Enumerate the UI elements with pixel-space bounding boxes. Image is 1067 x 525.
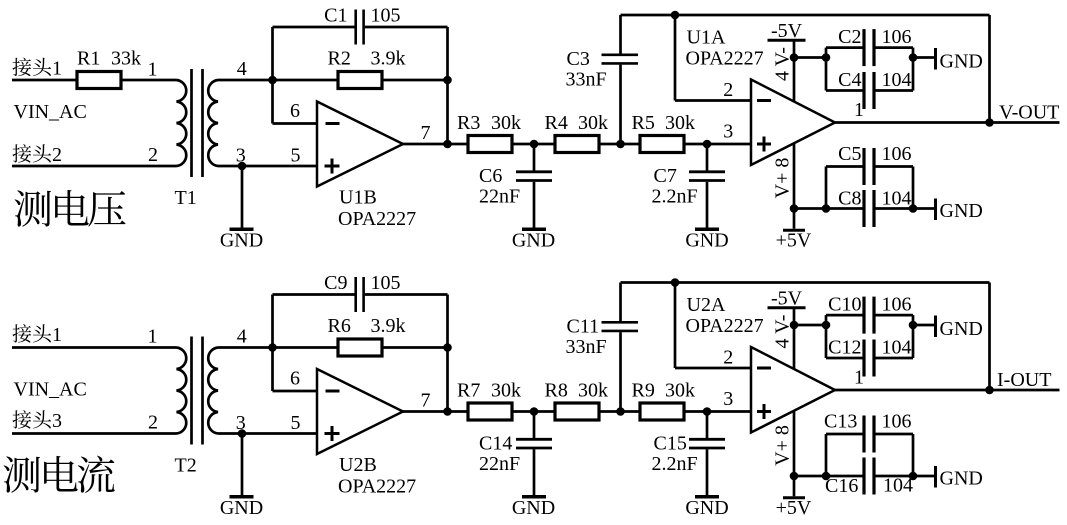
ground under transformer: [220, 497, 263, 519]
transformer T1 core: [192, 69, 203, 177]
svg-text:GND: GND: [940, 200, 983, 222]
wire -5V node to bypass caps: [794, 324, 826, 327]
label 接头1 (connector 1): [13, 58, 63, 80]
power +5V flag: [776, 497, 812, 519]
svg-text:1: 1: [52, 58, 62, 80]
label 接头3 (connector 2): [13, 410, 63, 432]
label R8 30k: [545, 380, 609, 402]
svg-text:30k: 30k: [578, 112, 608, 134]
wire -5V to op-amp V- pin: [793, 42, 796, 103]
svg-text:OPA2227: OPA2227: [338, 476, 416, 498]
svg-text:22nF: 22nF: [479, 186, 520, 208]
svg-text:30k: 30k: [665, 112, 695, 134]
svg-text:C4: C4: [838, 69, 861, 91]
svg-text:V-OUT: V-OUT: [999, 102, 1059, 124]
svg-text:+5V: +5V: [776, 497, 812, 519]
svg-text:30k: 30k: [665, 380, 695, 402]
wire -5V node to bypass caps: [794, 56, 826, 59]
svg-text:R5: R5: [632, 112, 655, 134]
svg-text:U2A: U2A: [687, 294, 726, 316]
label C5 106: [838, 143, 911, 165]
svg-text:6: 6: [290, 368, 300, 390]
svg-text:2.2nF: 2.2nF: [652, 186, 698, 208]
svg-text:1: 1: [148, 59, 158, 81]
wire pin2 branch: [675, 15, 751, 101]
node +5V junction: [790, 472, 799, 481]
wire bypass to ground flag: [913, 324, 934, 327]
capacitor C3 33nF: [602, 15, 639, 144]
svg-text:104: 104: [883, 475, 913, 497]
power +5V flag: [776, 230, 812, 252]
svg-text:C9: C9: [324, 272, 347, 294]
label R6 3.9k: [328, 315, 406, 337]
svg-text:2: 2: [723, 347, 733, 369]
svg-text:1: 1: [148, 326, 158, 348]
caption 测电压: [15, 190, 126, 227]
wire T pin3 to op-amp pin5: [218, 165, 317, 168]
label C10 106: [828, 294, 911, 316]
svg-text:R6: R6: [328, 315, 351, 337]
ground under C6: [512, 229, 555, 251]
wire pin2 branch: [675, 283, 751, 369]
wire +5V node to bypass caps: [794, 475, 863, 478]
wire node A to feedback row (vertical): [271, 27, 274, 124]
svg-text:GND: GND: [685, 497, 728, 519]
svg-text:3: 3: [723, 388, 733, 410]
output feedback junction: [985, 386, 994, 395]
wire R8 to R9: [599, 410, 640, 413]
transformer T1 primary winding: [177, 80, 187, 166]
resistor R7 30k: [468, 403, 512, 420]
svg-text:I-OUT: I-OUT: [997, 369, 1051, 391]
capacitor C10 106 (bypass): [826, 297, 913, 358]
label R3 30k: [457, 112, 521, 134]
op-amp U1A: [751, 80, 835, 166]
wire 接头 lower to T pin2: [12, 432, 177, 435]
node C14 junction: [530, 407, 539, 416]
ground flag right (upper): [936, 48, 983, 73]
svg-text:V+ 8: V+ 8: [772, 425, 794, 466]
label R4 30k: [545, 112, 609, 134]
svg-text:OPA2227: OPA2227: [686, 315, 764, 337]
svg-text:R7: R7: [457, 380, 480, 402]
transformer T2 secondary winding: [208, 348, 218, 434]
resistor R8 30k: [555, 403, 599, 420]
label C8 104: [838, 188, 911, 210]
svg-text:3: 3: [723, 121, 733, 143]
node A junction: [268, 76, 277, 85]
svg-text:GND: GND: [220, 497, 263, 519]
svg-text:7: 7: [421, 122, 431, 144]
capacitor C4 104 (bypass): [826, 48, 913, 109]
ground flag right (lower): [936, 466, 983, 490]
svg-text:R1: R1: [77, 48, 100, 70]
svg-text:C11: C11: [567, 315, 600, 337]
op-amp U2A plus sign: [757, 404, 771, 419]
wire node3 to ground: [241, 166, 244, 228]
capacitor C2 106 (bypass): [826, 29, 913, 90]
node +5V junction: [790, 204, 799, 213]
wire T pin3 to op-amp pin5: [218, 432, 317, 435]
svg-text:106: 106: [882, 294, 912, 316]
svg-text:C6: C6: [479, 165, 502, 187]
node 3 junction: [238, 162, 247, 171]
capacitor C12 104 (bypass): [826, 315, 913, 376]
svg-text:C14: C14: [479, 433, 512, 455]
op-amp U2A: [751, 347, 835, 433]
capacitor C7 2.2nF: [689, 144, 725, 228]
ground under C14: [512, 497, 555, 519]
svg-text:33nF: 33nF: [566, 336, 607, 358]
wire op-amp output pin7: [403, 143, 468, 146]
node 3 junction: [238, 429, 247, 438]
wire 接头1 to R1: [12, 79, 77, 82]
label R5 30k: [632, 112, 696, 134]
wire R4 to R5: [599, 143, 640, 146]
label C7 2.2nF: [652, 165, 698, 208]
capacitor C1 105 (feedback): [273, 10, 448, 45]
wire T pin4 to node A: [218, 346, 273, 349]
top feedback rail: [621, 14, 990, 17]
label C12 104: [828, 337, 911, 359]
svg-text:4 V-: 4 V-: [772, 47, 794, 81]
op-amp U2B plus sign: [325, 426, 340, 441]
svg-text:GND: GND: [940, 468, 983, 490]
wire feedback vertical far right: [988, 283, 991, 391]
label U2B OPA2227: [338, 454, 416, 498]
op-amp U1B plus sign: [325, 159, 340, 174]
svg-text:2: 2: [52, 144, 62, 166]
capacitor C16 104 (bypass): [864, 434, 913, 495]
svg-text:33k: 33k: [111, 48, 141, 70]
svg-text:104: 104: [882, 188, 912, 210]
svg-text:C1: C1: [324, 5, 347, 27]
label C4 104: [838, 69, 911, 91]
wire node A to R6: [273, 346, 339, 349]
capacitor C6 22nF: [516, 144, 552, 228]
wire feedback vertical right: [446, 295, 449, 412]
svg-text:T2: T2: [175, 455, 197, 477]
svg-text:4 V-: 4 V-: [772, 315, 794, 349]
svg-text:T1: T1: [175, 187, 197, 209]
wire feedback vertical far right: [988, 15, 991, 123]
svg-text:GND: GND: [940, 318, 983, 340]
junction left bypass bracket: [822, 53, 831, 62]
label U2A OPA2227: [686, 294, 764, 337]
junction right bypass bracket lower: [909, 472, 918, 481]
svg-text:104: 104: [882, 69, 912, 91]
resistor R1: [77, 72, 121, 89]
svg-text:+5V: +5V: [776, 230, 812, 252]
svg-text:3.9k: 3.9k: [371, 315, 406, 337]
resistor R4 30k: [555, 136, 599, 153]
svg-text:C7: C7: [654, 165, 677, 187]
label R7 30k: [457, 380, 521, 402]
capacitor C8 104 (bypass): [864, 167, 913, 228]
node -5V junction: [790, 321, 799, 330]
svg-text:106: 106: [882, 411, 912, 433]
op-amp U1B: [317, 102, 403, 187]
wire R5 to op-amp pin3: [686, 143, 752, 146]
wire pin6 row: [273, 390, 318, 393]
wire 接头 lower to T pin2: [12, 165, 177, 168]
svg-text:2.2nF: 2.2nF: [652, 453, 698, 475]
ground flag right (lower): [936, 199, 983, 223]
node C11 junction: [616, 407, 625, 416]
svg-text:104: 104: [882, 337, 912, 359]
label C11 33nF: [566, 315, 607, 358]
ground under C15: [685, 497, 728, 519]
svg-text:VIN_AC: VIN_AC: [14, 379, 87, 401]
top feedback rail: [621, 281, 990, 284]
label C3 33nF: [566, 48, 607, 91]
svg-text:7: 7: [421, 390, 431, 412]
label C16 104: [825, 475, 913, 498]
caption 测电流: [4, 456, 115, 493]
label C1 105: [324, 5, 400, 27]
op-amp U1A plus sign: [757, 137, 771, 152]
svg-text:C3: C3: [567, 48, 590, 70]
svg-text:3: 3: [52, 410, 62, 432]
capacitor C13 106 (bypass): [826, 416, 913, 477]
resistor R9 30k: [640, 403, 684, 420]
svg-text:OPA2227: OPA2227: [686, 48, 764, 70]
label 接头1 (connector 1): [13, 324, 63, 346]
junction right bypass bracket lower: [909, 204, 918, 213]
svg-text:GND: GND: [512, 497, 555, 519]
transformer T2 core: [192, 337, 203, 445]
node C7 junction: [703, 140, 712, 149]
svg-text:5: 5: [291, 412, 301, 434]
svg-text:C12: C12: [828, 337, 861, 359]
ground flag right (upper): [936, 316, 983, 341]
wire 接头1 to T2 pin1: [12, 346, 177, 349]
op-amp U2B: [317, 369, 403, 454]
svg-text:2: 2: [148, 144, 158, 166]
capacitor C15 2.2nF: [689, 412, 725, 496]
junction left bypass bracket lower: [822, 472, 831, 481]
label C6 22nF: [479, 165, 520, 208]
label C9 105: [324, 272, 400, 294]
wire node A to feedback row (vertical): [271, 295, 274, 392]
wire lower bypass to ground flag: [913, 475, 934, 478]
svg-text:VIN_AC: VIN_AC: [14, 101, 87, 123]
right feedback node junction: [443, 76, 452, 85]
wire op-amp V+ pin to +5V: [793, 411, 796, 497]
svg-text:105: 105: [371, 5, 401, 27]
label C15 2.2nF: [652, 433, 698, 476]
svg-text:R3: R3: [457, 112, 480, 134]
resistor R3 30k: [468, 136, 512, 153]
wire lower bypass to ground flag: [913, 207, 934, 210]
svg-text:105: 105: [371, 272, 401, 294]
svg-text:33nF: 33nF: [566, 69, 607, 91]
svg-text:2: 2: [723, 79, 733, 101]
wire -5V to op-amp V- pin: [793, 309, 796, 370]
svg-text:OPA2227: OPA2227: [338, 208, 416, 230]
transformer T2 primary winding: [177, 348, 187, 434]
svg-text:22nF: 22nF: [479, 453, 520, 475]
junction left bypass bracket lower: [822, 204, 831, 213]
svg-text:4: 4: [237, 326, 247, 348]
power -5V flag: [768, 288, 806, 310]
svg-text:C10: C10: [828, 294, 861, 316]
op-amp U1B minus sign: [326, 122, 340, 125]
svg-text:4: 4: [237, 58, 247, 80]
op-amp U2A minus sign: [757, 367, 771, 370]
power -5V flag: [768, 20, 806, 42]
junction right bypass bracket: [909, 321, 918, 330]
junction left bypass bracket: [822, 321, 831, 330]
resistor R5 30k: [640, 136, 684, 153]
pin2 branch junction: [671, 11, 680, 20]
transformer T1 secondary winding: [208, 80, 218, 166]
svg-text:1: 1: [52, 324, 62, 346]
svg-text:C13: C13: [824, 411, 857, 433]
label U1A OPA2227: [686, 27, 764, 70]
label 接头2 (connector 2): [13, 144, 63, 166]
node C6 junction: [530, 140, 539, 149]
output node junction: [443, 140, 452, 149]
wire op-amp output to V-OUT: [835, 121, 1060, 124]
svg-text:C15: C15: [654, 433, 687, 455]
capacitor C5 106 (bypass): [826, 148, 913, 209]
op-amp U2B minus sign: [326, 390, 340, 393]
output node junction: [443, 407, 452, 416]
wire op-amp output to I-OUT: [835, 389, 1060, 392]
label C13 106: [824, 411, 912, 433]
svg-text:30k: 30k: [491, 112, 521, 134]
capacitor C11 33nF: [602, 283, 639, 412]
node -5V junction: [790, 53, 799, 62]
svg-text:R9: R9: [632, 380, 655, 402]
wire R9 to op-amp pin3: [686, 410, 752, 413]
svg-text:V+ 8: V+ 8: [772, 158, 794, 199]
wire op-amp output pin7: [403, 410, 468, 413]
wire pin6 row: [273, 122, 318, 125]
wire feedback vertical right: [446, 27, 449, 144]
wire +5V node to bypass caps: [794, 207, 863, 210]
label R9 30k: [632, 380, 696, 402]
capacitor C14 22nF: [516, 412, 552, 496]
label R1 33k: [77, 48, 141, 70]
label C14 22nF: [479, 433, 520, 476]
svg-text:3.9k: 3.9k: [371, 48, 406, 70]
svg-text:C16: C16: [825, 475, 858, 497]
node C3 junction: [616, 140, 625, 149]
svg-text:106: 106: [882, 143, 912, 165]
wire R3 to R4: [512, 143, 555, 146]
svg-text:30k: 30k: [491, 380, 521, 402]
resistor R2 3.9k: [338, 72, 382, 89]
svg-text:R8: R8: [545, 380, 568, 402]
svg-text:GND: GND: [940, 51, 983, 73]
wire node3 to ground: [241, 434, 244, 496]
svg-text:2: 2: [148, 412, 158, 434]
label R2 3.9k: [328, 48, 406, 70]
svg-text:GND: GND: [512, 230, 555, 252]
svg-text:GND: GND: [220, 230, 263, 252]
wire node A to R2: [273, 79, 339, 82]
node C15 junction: [703, 407, 712, 416]
op-amp U1A minus sign: [757, 99, 771, 102]
wire R7 to R8: [512, 410, 555, 413]
junction right bypass bracket: [909, 53, 918, 62]
wire R2 to right feedback node: [382, 79, 448, 82]
svg-text:U2B: U2B: [339, 454, 377, 476]
wire bypass to ground flag: [913, 56, 934, 59]
ground under transformer: [220, 229, 263, 251]
wire R6 to right feedback node: [382, 346, 448, 349]
wire T pin4 to node A: [218, 79, 273, 82]
node A junction: [268, 343, 277, 352]
svg-text:U1A: U1A: [687, 27, 726, 49]
label U1B OPA2227: [338, 187, 416, 231]
svg-text:R4: R4: [545, 112, 568, 134]
resistor R6 3.9k: [338, 339, 382, 356]
wire R1 to T1 pin1: [121, 79, 177, 82]
svg-text:106: 106: [882, 26, 912, 48]
svg-text:C2: C2: [838, 26, 861, 48]
svg-text:GND: GND: [685, 230, 728, 252]
svg-text:5: 5: [291, 145, 301, 167]
ground under C7: [685, 229, 728, 251]
right feedback node junction: [443, 343, 452, 352]
pin2 branch junction: [671, 278, 680, 287]
svg-text:6: 6: [290, 100, 300, 122]
label C2 106: [838, 26, 911, 48]
svg-text:U1B: U1B: [339, 187, 377, 209]
output feedback junction: [985, 118, 994, 127]
svg-text:R2: R2: [328, 48, 351, 70]
capacitor C9 105 (feedback): [273, 277, 448, 312]
wire op-amp V+ pin to +5V: [793, 143, 796, 229]
svg-text:C5: C5: [838, 143, 861, 165]
svg-text:C8: C8: [838, 188, 861, 210]
svg-text:30k: 30k: [578, 380, 608, 402]
